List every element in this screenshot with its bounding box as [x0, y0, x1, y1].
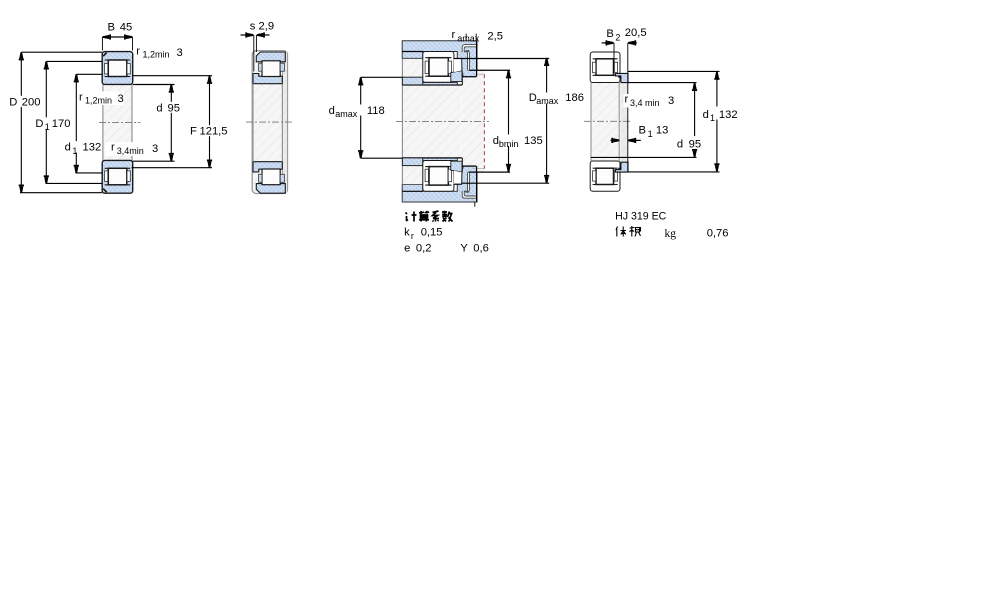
view3 wedge bottom (white gap) [454, 171, 462, 184]
svg-text:Y: Y [460, 243, 468, 255]
svg-text:d: d [703, 109, 709, 121]
view3 centerline [396, 120, 489, 122]
view1 label r34min [105, 142, 157, 156]
svg-text:d: d [65, 142, 71, 154]
view3 ra fillet channel top [463, 46, 476, 52]
view2 outer ring bottom [256, 184, 285, 194]
svg-text:45: 45 [120, 22, 132, 34]
view2 centerline [246, 121, 294, 123]
view3 housing bottom [402, 166, 477, 202]
view4 HJ ring top [615, 73, 628, 82]
svg-text:13: 13 [656, 124, 668, 136]
view3 air gap faint fill [403, 59, 423, 77]
view1 dim F 121,5 [209, 76, 211, 167]
svg-text:20,5: 20,5 [625, 27, 647, 39]
view3 dim D_amax 186 [546, 59, 548, 183]
view1 rings bottom section [102, 160, 133, 193]
view1 bore strip [103, 84, 133, 160]
view3 ra fillet channel bottom [463, 191, 476, 197]
svg-text:135: 135 [524, 135, 543, 147]
view1 dim D1 170 [45, 62, 47, 183]
view2 outer ring top [256, 52, 285, 62]
svg-text:1: 1 [72, 146, 77, 156]
svg-text:3: 3 [668, 95, 674, 107]
svg-text:e: e [404, 243, 410, 255]
svg-text:1,2min: 1,2min [143, 50, 170, 60]
view1 rings top section [102, 52, 133, 85]
view3 wedge top (white gap) [454, 59, 462, 72]
svg-text:3,4min: 3,4min [117, 146, 144, 156]
view3 rb fillet channel bottom [468, 173, 470, 191]
view3 shaft small section [403, 85, 462, 157]
svg-text:B: B [108, 22, 115, 34]
svg-text:B: B [606, 28, 613, 40]
view3 housing right edge [476, 41, 478, 77]
view4 HJ ring bottom [615, 162, 628, 172]
svg-text:bmin: bmin [499, 139, 519, 149]
svg-text:1: 1 [45, 122, 50, 132]
svg-text:kg: kg [665, 228, 677, 240]
svg-text:B: B [639, 124, 646, 136]
svg-text:2,9: 2,9 [259, 20, 275, 32]
svg-text:1: 1 [648, 129, 653, 139]
view2 silhouette [252, 51, 287, 194]
svg-text:170: 170 [52, 118, 71, 130]
svg-text:D: D [9, 96, 17, 108]
view1 centerline [99, 121, 141, 123]
view3 HJ ring quad above wedge bottom [451, 161, 462, 172]
view3 housing top [402, 41, 477, 77]
svg-text:95: 95 [689, 138, 701, 150]
view3 dim d_bmin 135 [508, 71, 510, 171]
svg-text:k: k [404, 227, 410, 239]
svg-text:118: 118 [367, 105, 385, 117]
view4 label weight (Chinese) [616, 226, 641, 237]
view3 inner ring strip bottom [423, 158, 458, 160]
view3 housing bore seat lines over pockets [402, 51, 423, 53]
svg-text:D: D [35, 118, 43, 130]
svg-text:3,4 min: 3,4 min [630, 98, 660, 108]
svg-text:r: r [136, 45, 140, 57]
view3 bearing bottom section [423, 161, 454, 192]
svg-text:0,6: 0,6 [473, 243, 489, 255]
view3 inner ring strip top [423, 82, 458, 84]
view3 shaft break dashed line [483, 74, 485, 168]
view3 dim d_amax 118 [360, 78, 362, 158]
svg-text:0,76: 0,76 [707, 227, 729, 239]
view4 dim d 95 [628, 82, 697, 84]
view4 centerline [584, 120, 632, 122]
svg-text:d: d [677, 138, 683, 150]
svg-text:amax: amax [335, 109, 358, 119]
svg-text:2,5: 2,5 [487, 31, 503, 43]
svg-text:95: 95 [168, 102, 180, 114]
svg-text:1,2min: 1,2min [85, 96, 112, 106]
view1 label r12min mid [78, 91, 124, 105]
svg-text:132: 132 [83, 142, 102, 154]
svg-text:2: 2 [615, 32, 620, 42]
svg-text:0,2: 0,2 [416, 243, 432, 255]
svg-text:0,15: 0,15 [421, 227, 443, 239]
view3 abutment sleeve bottom [402, 158, 422, 166]
view3 rb fillet channel top [468, 52, 470, 70]
view2 roller top [262, 61, 280, 77]
svg-text:200: 200 [22, 96, 41, 108]
view4 bearing bottom section [590, 161, 620, 191]
svg-text:r: r [452, 29, 456, 41]
view2 cage columns top [259, 63, 262, 71]
svg-text:1: 1 [710, 113, 715, 123]
view1 dim d 95 [170, 85, 172, 160]
svg-text:d: d [329, 105, 335, 117]
svg-text:d: d [156, 102, 162, 114]
view4 bearing top section [590, 52, 620, 83]
view3 label calc factors (Chinese) [406, 211, 453, 222]
view1 dim d1 132 [75, 75, 77, 172]
svg-text:amax: amax [536, 96, 559, 106]
svg-text:r: r [411, 231, 414, 241]
view2 cage columns bottom [259, 174, 262, 182]
view4 label r34min 3 [624, 94, 663, 108]
svg-text:3: 3 [118, 93, 124, 105]
view1 chamfer marks [103, 53, 107, 57]
view4 dim d1 132 [628, 70, 720, 72]
view2 inner ring top [253, 74, 282, 84]
view3 HJ ring quad below wedge top [451, 71, 462, 82]
svg-text:HJ 319 EC: HJ 319 EC [615, 210, 667, 222]
view3 bearing top section [423, 52, 454, 83]
svg-text:r: r [625, 94, 629, 106]
view4 bore strip [591, 83, 620, 161]
view3 abutment sleeve top [402, 77, 422, 85]
svg-text:3: 3 [152, 143, 158, 155]
svg-text:3: 3 [177, 47, 183, 59]
svg-text:r: r [111, 142, 115, 154]
view1 dim D 200 [20, 53, 22, 192]
svg-text:r: r [79, 91, 83, 103]
view2 inner ring bottom [253, 162, 282, 172]
svg-text:132: 132 [719, 109, 738, 121]
view3 shaft large section [462, 77, 484, 166]
svg-text:186: 186 [565, 92, 584, 104]
view2 sleeve edges [252, 84, 254, 162]
view2 roller bottom [262, 169, 280, 185]
svg-text:121,5: 121,5 [200, 126, 228, 138]
svg-text:s: s [250, 20, 256, 32]
svg-text:F: F [190, 126, 197, 138]
